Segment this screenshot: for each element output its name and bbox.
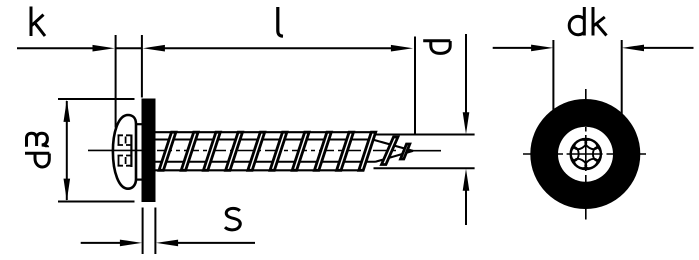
extension line tip	[414, 37, 416, 135]
arrow s left	[156, 240, 178, 247]
dimension dk line left	[493, 47, 534, 49]
arrow l left	[143, 45, 165, 52]
centerline horizontal top view	[523, 153, 646, 155]
arrow l right	[391, 45, 413, 52]
thread flight 2	[181, 132, 198, 170]
extension line thread bottom	[374, 167, 475, 169]
neck line bottom	[135, 179, 142, 181]
label l	[278, 7, 283, 36]
washer flange side view	[142, 99, 156, 203]
dimension dk line right	[641, 47, 694, 49]
extension line thread top	[371, 134, 475, 136]
top view washer ring	[530, 99, 640, 209]
dimension s line left	[81, 242, 121, 244]
thread crest bottom segments	[156, 169, 359, 171]
screw core line bottom	[156, 161, 376, 163]
extension line s left	[142, 208, 144, 255]
extension line head-left	[115, 35, 117, 128]
extension line d3 top	[58, 98, 135, 100]
label dk	[569, 7, 606, 36]
torx petals	[571, 138, 601, 170]
label k	[31, 7, 45, 37]
arrowheads	[64, 45, 645, 247]
extension line washer-left	[141, 35, 143, 98]
arrow p down	[463, 112, 470, 134]
torx recess side marks	[118, 135, 132, 168]
top view inner circle	[558, 127, 613, 182]
thread flight 7	[292, 132, 309, 170]
dimension d3 line	[66, 101, 68, 200]
thread flight 6	[270, 132, 287, 170]
arrow d3 up	[64, 100, 71, 122]
arrow dk left	[531, 45, 553, 52]
axis centerline beyond tip	[403, 150, 441, 152]
arrow p up	[463, 169, 470, 191]
thread flight 4	[226, 132, 243, 170]
extension line dk right	[621, 40, 623, 115]
dimension s line right	[177, 242, 255, 244]
thread crest top segments	[156, 131, 372, 133]
arrow k right	[93, 45, 115, 52]
tip cone	[373, 140, 414, 162]
label s	[225, 208, 240, 229]
screw core line top	[156, 132, 414, 170]
centerline vertical top view	[585, 89, 587, 220]
tiny leaf near tip	[401, 144, 410, 159]
screw head dome	[113, 115, 136, 189]
axis centerline through thread	[157, 150, 398, 152]
dimension p line upper	[465, 34, 467, 114]
arrow dk right	[622, 45, 644, 52]
thread flight 5	[248, 132, 265, 170]
thread flight 8	[314, 132, 331, 170]
extension line dk left	[552, 40, 554, 112]
extension line s right	[154, 208, 156, 255]
arrow d3 down	[64, 179, 71, 201]
k-l connecting segment	[116, 47, 142, 49]
thread flight 9	[337, 132, 354, 170]
small leaf on cone	[382, 137, 398, 165]
dimension p line lower	[465, 190, 467, 225]
thread flight 10	[359, 132, 376, 170]
arrow s right	[120, 240, 142, 247]
label p (rotated 90deg)	[423, 41, 450, 54]
thread flight 3	[203, 132, 220, 170]
dimension l line	[160, 47, 395, 49]
axis stub left of head	[88, 149, 142, 151]
neck line top	[135, 124, 142, 179]
label d3 (rotated -90deg)	[25, 133, 49, 167]
thread flight 1	[159, 132, 176, 170]
extension line d3 bottom	[58, 201, 135, 203]
torx drive circle	[571, 139, 602, 170]
